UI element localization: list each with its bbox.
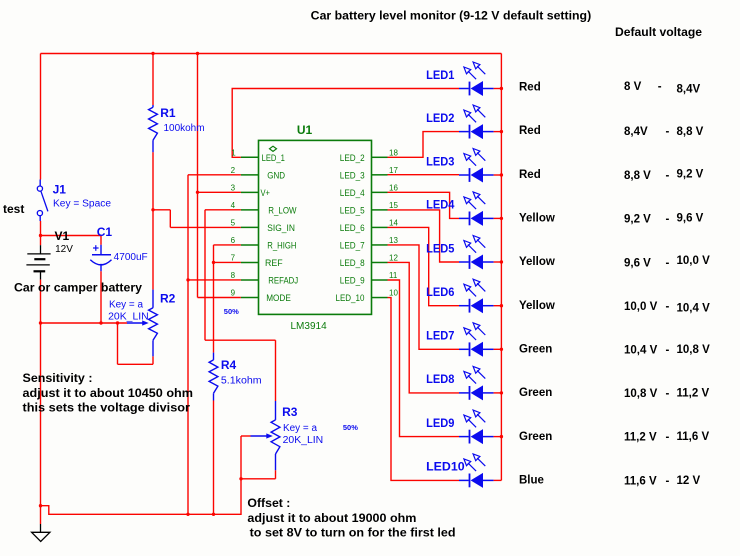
svg-text:50%: 50% xyxy=(343,423,358,432)
svg-text:Yellow: Yellow xyxy=(519,213,555,225)
svg-text:Blue: Blue xyxy=(519,474,544,486)
svg-text:MODE: MODE xyxy=(266,293,291,303)
svg-text:V1: V1 xyxy=(55,229,70,243)
svg-text:LED_4: LED_4 xyxy=(340,188,365,198)
svg-text:7: 7 xyxy=(231,253,236,262)
svg-text:-: - xyxy=(666,388,670,400)
svg-text:R_LOW: R_LOW xyxy=(268,205,297,215)
svg-text:-: - xyxy=(666,345,670,357)
svg-text:GND: GND xyxy=(267,170,285,180)
svg-text:Sensitivity :: Sensitivity : xyxy=(23,373,93,385)
svg-text:LED_7: LED_7 xyxy=(340,241,365,251)
svg-text:-: - xyxy=(666,257,670,269)
svg-text:R3: R3 xyxy=(282,405,298,419)
svg-text:11,6 V: 11,6 V xyxy=(624,475,657,487)
svg-text:12: 12 xyxy=(389,253,398,262)
svg-text:-: - xyxy=(666,213,670,225)
svg-text:-: - xyxy=(666,126,670,138)
svg-text:4700uF: 4700uF xyxy=(114,252,148,263)
svg-text:Green: Green xyxy=(519,387,552,399)
svg-text:9,6 V: 9,6 V xyxy=(677,213,704,225)
svg-text:REFADJ: REFADJ xyxy=(268,276,298,286)
svg-text:Key = a: Key = a xyxy=(283,423,317,434)
svg-text:LED_9: LED_9 xyxy=(340,276,365,286)
svg-text:R2: R2 xyxy=(160,291,176,305)
svg-text:Yellow: Yellow xyxy=(519,256,555,268)
svg-text:LED4: LED4 xyxy=(426,199,455,212)
svg-text:18: 18 xyxy=(389,148,398,157)
svg-text:LED2: LED2 xyxy=(426,112,455,125)
svg-text:adjust it to about 19000 ohm: adjust it to about 19000 ohm xyxy=(247,513,416,525)
svg-text:17: 17 xyxy=(389,166,398,175)
svg-text:R4: R4 xyxy=(221,358,237,372)
svg-text:1: 1 xyxy=(231,148,236,157)
svg-text:9,6 V: 9,6 V xyxy=(624,257,651,269)
svg-text:V+: V+ xyxy=(261,188,271,198)
svg-text:LED6: LED6 xyxy=(426,286,455,299)
svg-text:2: 2 xyxy=(231,166,236,175)
svg-text:6: 6 xyxy=(231,236,236,245)
svg-text:C1: C1 xyxy=(97,225,113,239)
svg-text:Red: Red xyxy=(519,169,541,181)
svg-text:Key = a: Key = a xyxy=(109,299,143,310)
svg-text:11,6 V: 11,6 V xyxy=(677,431,710,443)
svg-text:LED7: LED7 xyxy=(426,330,454,343)
svg-text:LED5: LED5 xyxy=(426,242,455,255)
svg-text:12 V: 12 V xyxy=(677,475,701,487)
svg-text:-: - xyxy=(666,301,670,313)
svg-text:50%: 50% xyxy=(224,307,239,316)
svg-text:10,0 V: 10,0 V xyxy=(677,255,711,267)
svg-text:10,0 V: 10,0 V xyxy=(624,301,658,313)
svg-text:to set 8V to turn on for the f: to set 8V to turn on for the first led xyxy=(250,527,456,539)
svg-text:10,4 V: 10,4 V xyxy=(624,345,658,357)
svg-text:test: test xyxy=(3,202,24,216)
svg-text:R1: R1 xyxy=(160,106,176,120)
svg-text:-: - xyxy=(658,81,662,93)
svg-text:Car or camper battery: Car or camper battery xyxy=(14,283,143,295)
svg-text:LM3914: LM3914 xyxy=(291,321,328,332)
svg-text:this sets the voltage divisor: this sets the voltage divisor xyxy=(23,402,191,414)
svg-text:9: 9 xyxy=(231,289,236,298)
svg-text:LED3: LED3 xyxy=(426,155,455,168)
svg-text:Green: Green xyxy=(519,431,552,443)
svg-text:Yellow: Yellow xyxy=(519,300,555,312)
svg-text:8,4V: 8,4V xyxy=(677,84,701,96)
svg-text:-: - xyxy=(666,170,670,182)
svg-text:20K_LIN: 20K_LIN xyxy=(108,312,149,323)
svg-text:Key = Space: Key = Space xyxy=(53,198,111,209)
svg-text:5: 5 xyxy=(231,218,236,227)
svg-text:-: - xyxy=(666,432,670,444)
svg-text:Red: Red xyxy=(519,82,541,94)
svg-text:J1: J1 xyxy=(53,182,67,196)
svg-text:Default voltage: Default voltage xyxy=(615,27,702,39)
svg-text:Offset :: Offset : xyxy=(247,498,290,510)
svg-text:LED1: LED1 xyxy=(426,69,455,82)
svg-text:LED_3: LED_3 xyxy=(340,170,365,180)
svg-text:-: - xyxy=(666,475,670,487)
svg-text:LED_6: LED_6 xyxy=(340,223,365,233)
svg-text:8,4V: 8,4V xyxy=(624,126,648,138)
svg-text:16: 16 xyxy=(389,183,398,192)
svg-text:14: 14 xyxy=(389,218,398,227)
svg-text:adjust it to about 10450 ohm: adjust it to about 10450 ohm xyxy=(23,388,194,400)
svg-text:11,2 V: 11,2 V xyxy=(677,387,710,399)
svg-text:U1: U1 xyxy=(297,123,313,137)
svg-text:LED_1: LED_1 xyxy=(262,153,285,163)
svg-text:9,2 V: 9,2 V xyxy=(624,213,651,225)
svg-text:10: 10 xyxy=(389,289,398,298)
svg-text:10,8 V: 10,8 V xyxy=(624,388,658,400)
svg-text:LED_5: LED_5 xyxy=(340,205,365,215)
svg-text:11,2 V: 11,2 V xyxy=(624,432,657,444)
svg-text:3: 3 xyxy=(231,183,236,192)
svg-text:4: 4 xyxy=(231,201,236,210)
svg-text:LED8: LED8 xyxy=(426,373,455,386)
svg-text:LED_8: LED_8 xyxy=(340,258,365,268)
svg-text:Red: Red xyxy=(519,125,541,137)
svg-text:SIG_IN: SIG_IN xyxy=(267,223,295,233)
svg-text:9,2 V: 9,2 V xyxy=(677,169,704,181)
svg-text:8: 8 xyxy=(231,271,236,280)
svg-text:8,8 V: 8,8 V xyxy=(677,126,704,138)
svg-text:15: 15 xyxy=(389,201,398,210)
svg-text:13: 13 xyxy=(389,236,398,245)
svg-text:LED_2: LED_2 xyxy=(340,153,365,163)
svg-text:10,8 V: 10,8 V xyxy=(677,344,711,356)
svg-text:Green: Green xyxy=(519,343,552,355)
svg-text:12V: 12V xyxy=(55,244,73,255)
svg-text:5.1kohm: 5.1kohm xyxy=(221,375,262,386)
svg-text:20K_LIN: 20K_LIN xyxy=(283,435,324,446)
svg-text:LED9: LED9 xyxy=(426,417,455,430)
svg-text:REF: REF xyxy=(265,258,283,268)
svg-text:11: 11 xyxy=(389,271,398,280)
svg-text:100kohm: 100kohm xyxy=(164,123,205,134)
svg-text:R_HIGH: R_HIGH xyxy=(267,241,296,251)
svg-text:LED_10: LED_10 xyxy=(336,293,365,303)
svg-text:8 V: 8 V xyxy=(624,81,642,93)
svg-text:8,8 V: 8,8 V xyxy=(624,170,651,182)
svg-text:10,4 V: 10,4 V xyxy=(677,303,711,315)
svg-text:LED10: LED10 xyxy=(426,461,465,474)
svg-text:Car battery level monitor (9-1: Car battery level monitor (9-12 V defaul… xyxy=(311,10,592,22)
